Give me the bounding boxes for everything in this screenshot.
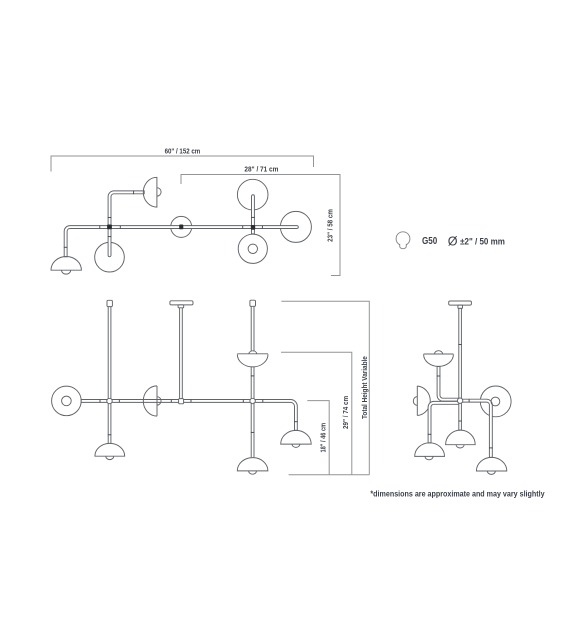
- side big circle G: [480, 386, 511, 417]
- hub1 upper arm elbow to right: [108, 191, 144, 226]
- bulb icon base: [400, 244, 407, 249]
- bulb of bottom-left dome: [62, 270, 71, 274]
- side middle dome bulb: [456, 445, 464, 448]
- dim 18in 29in total height lines: [281, 301, 369, 474]
- dome1 opening down: [95, 443, 125, 456]
- drop3 cap: [250, 300, 256, 306]
- svg-text:±2" / 50 mm: ±2" / 50 mm: [460, 236, 505, 247]
- bowl up-facing bulb: [249, 351, 257, 354]
- dome1 bulb: [106, 456, 114, 459]
- side bottom-right dome: [476, 457, 506, 471]
- drop2 canopy: [170, 301, 193, 305]
- svg-text:Ø: Ø: [448, 235, 458, 249]
- circle A shade disc on lower arm: [95, 242, 125, 272]
- dome shade bottom-left opening down: [51, 257, 81, 271]
- side bowl body: [424, 354, 454, 366]
- side center rod: [459, 308, 462, 430]
- bulb icon globe: [396, 232, 410, 246]
- front view ticks: [99, 400, 101, 403]
- drop2 end square: [179, 399, 184, 404]
- svg-text:23" / 58 cm: 23" / 58 cm: [328, 209, 335, 242]
- side bottom-left dome: [415, 443, 445, 457]
- side joint knob: [457, 398, 462, 403]
- dome shade right-facing: [143, 177, 157, 207]
- main bar with right elbow drop: [81, 400, 297, 431]
- drop3 rod middle: [251, 367, 254, 399]
- drop1 joint knob: [107, 398, 112, 403]
- dimension 28in + 23in lines: [181, 175, 340, 276]
- bowl up-facing body: [237, 354, 268, 367]
- side bowl arm elbow to joint: [437, 367, 460, 402]
- tick marks top view: [99, 226, 101, 229]
- right elbow dome opening down: [281, 430, 312, 444]
- svg-text:29" / 74 cm: 29" / 74 cm: [343, 396, 350, 429]
- mid dome right-facing body: [143, 386, 157, 416]
- side bottom-right dome bulb: [487, 471, 495, 474]
- side canopy stem: [458, 305, 463, 308]
- circle B canopy circle: [171, 216, 192, 237]
- drop1 cap: [107, 300, 112, 306]
- circle D shade disc bottom: [238, 234, 267, 263]
- dome3 opening down: [237, 458, 268, 471]
- circle F inner: [62, 396, 72, 406]
- side left-facing dome bulb: [413, 397, 417, 406]
- bowl up-facing rim: [237, 353, 268, 355]
- drop3 joint knob: [250, 398, 255, 403]
- bulb of right-facing dome: [157, 188, 161, 196]
- side circle G inner: [491, 397, 500, 406]
- side bottom-left dome bulb: [425, 456, 433, 459]
- side left-down arm: [428, 401, 460, 443]
- main bar with left elbow and left drop rod: [64, 226, 298, 257]
- circle C shade disc top: [237, 179, 268, 210]
- svg-text:60" / 152 cm: 60" / 152 cm: [165, 149, 201, 156]
- side left-facing dome flat edge: [416, 386, 418, 416]
- side view ticks: [458, 344, 461, 346]
- svg-text:G50: G50: [422, 236, 438, 247]
- svg-text:Total Height Variable: Total Height Variable: [362, 356, 369, 419]
- circle E shade disc right end: [280, 211, 311, 242]
- hub2 upper rod into circle C: [252, 195, 255, 226]
- side middle dome: [446, 430, 476, 445]
- drop3 rod lower: [251, 403, 254, 458]
- svg-text:18" / 46 cm: 18" / 46 cm: [321, 423, 328, 453]
- side right arm: [461, 399, 493, 457]
- svg-text:*dimensions are approximate an: *dimensions are approximate and may vary…: [370, 489, 545, 498]
- drop1 rod upper: [108, 307, 111, 400]
- hub2 lower stub to circle D: [252, 229, 255, 234]
- drop2 rod: [180, 308, 183, 399]
- drop3 rod upper: [251, 306, 254, 351]
- drop1 rod lower: [108, 403, 111, 444]
- side bowl bulb: [435, 351, 443, 354]
- circle D inner: [248, 244, 257, 253]
- hub2 black square: [251, 225, 255, 230]
- side canopy: [449, 301, 472, 305]
- svg-text:28" / 71 cm: 28" / 71 cm: [244, 167, 278, 174]
- right elbow dome bulb: [292, 444, 300, 447]
- hub1 lower rod into circle A: [108, 229, 111, 257]
- canopy black square: [179, 225, 183, 230]
- side bowl rim: [424, 353, 454, 355]
- dome3 bulb: [249, 471, 257, 474]
- mid dome bulb: [157, 397, 161, 405]
- mid dome right-facing flat edge: [156, 386, 158, 416]
- side left-facing dome body: [417, 386, 430, 416]
- drop2 stem: [178, 305, 184, 308]
- dimension 60in line: [51, 156, 314, 172]
- circle F left disc: [52, 386, 82, 416]
- hub1 black square: [107, 225, 112, 230]
